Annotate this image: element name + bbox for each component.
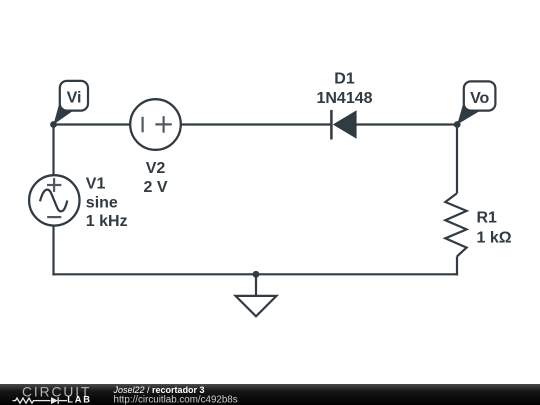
wire top rail left segment bbox=[54, 123, 131, 125]
logo circuit line with resistor and diode bbox=[13, 397, 68, 404]
svg-text:http://circuitlab.com/c492b8s: http://circuitlab.com/c492b8s bbox=[114, 395, 238, 405]
svg-text:R1: R1 bbox=[477, 210, 498, 227]
node Vi flag bbox=[54, 81, 89, 125]
wire top rail middle segment bbox=[181, 123, 332, 125]
node Vo flag bbox=[457, 81, 495, 124]
wire top rail right segment bbox=[357, 123, 458, 125]
voltage source V1 (sine) bbox=[29, 175, 79, 225]
svg-text:LAB: LAB bbox=[67, 395, 92, 405]
voltage source V2 bbox=[130, 99, 181, 150]
wire left vertical lower bbox=[52, 226, 54, 276]
svg-text:1 kHz: 1 kHz bbox=[86, 213, 128, 230]
node dot ground junction bbox=[253, 271, 260, 278]
svg-text:Vo: Vo bbox=[470, 90, 489, 107]
resistor R1 bbox=[445, 193, 466, 256]
wire bottom rail bbox=[52, 273, 458, 275]
wire right vertical lower bbox=[456, 256, 458, 275]
wire left vertical upper bbox=[52, 125, 54, 176]
svg-text:1N4148: 1N4148 bbox=[316, 90, 372, 107]
node dot Vo junction bbox=[454, 121, 461, 128]
wire right vertical upper bbox=[456, 125, 458, 194]
logo diode triangle bbox=[51, 397, 58, 404]
svg-text:sine: sine bbox=[86, 195, 118, 212]
svg-text:D1: D1 bbox=[334, 70, 355, 87]
svg-text:Josel22 / recortador 3: Josel22 / recortador 3 bbox=[113, 385, 205, 395]
svg-text:Vi: Vi bbox=[67, 89, 82, 106]
diode D1 bbox=[331, 110, 356, 140]
node dot Vi junction bbox=[50, 121, 57, 128]
svg-text:V2: V2 bbox=[146, 160, 166, 177]
ground bbox=[236, 274, 277, 316]
svg-text:V1: V1 bbox=[86, 175, 106, 192]
svg-text:2 V: 2 V bbox=[143, 179, 167, 196]
svg-text:1 kΩ: 1 kΩ bbox=[477, 230, 512, 247]
